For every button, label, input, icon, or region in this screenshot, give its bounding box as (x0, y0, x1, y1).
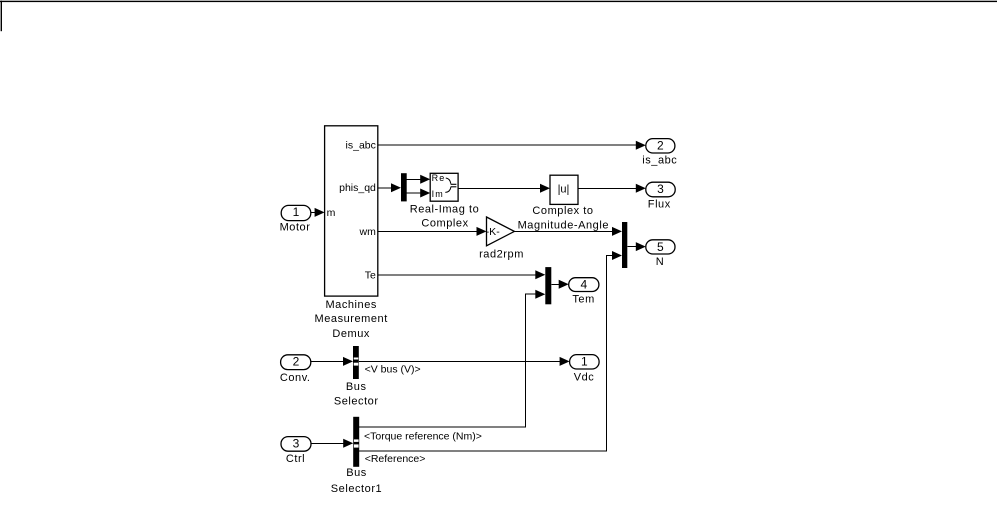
svg-text:rad2rpm: rad2rpm (479, 249, 524, 261)
svg-text:Im: Im (432, 189, 444, 199)
wire to Re (407, 175, 431, 184)
svg-text:Tem: Tem (572, 294, 594, 306)
outport 3 Flux (646, 182, 675, 210)
svg-text:<Torque reference (Nm)>: <Torque reference (Nm)> (364, 430, 482, 442)
svg-text:<Reference>: <Reference> (365, 453, 426, 465)
wire mux Tem output (551, 280, 568, 289)
outport 1 Vdc (570, 354, 600, 383)
svg-text:is_abc: is_abc (642, 154, 677, 166)
svg-text:Complex: Complex (421, 217, 468, 229)
svg-text:Magnitude-Angle: Magnitude-Angle (518, 219, 609, 231)
block U1 Real-Imag to Complex (410, 173, 480, 230)
bus selector Bus Selector1 (331, 417, 382, 495)
svg-text:phis_qd: phis_qd (339, 182, 376, 194)
wire Reference to mux N (359, 251, 622, 451)
svg-text:1: 1 (581, 354, 588, 368)
signal label V bus (V) (365, 363, 421, 375)
svg-text:5: 5 (657, 240, 664, 254)
wire Torque reference to mux Tem (359, 290, 545, 427)
svg-text:wm: wm (359, 226, 377, 238)
outport 4 Tem (569, 278, 599, 306)
svg-text:Ctrl: Ctrl (286, 453, 305, 465)
svg-text:3: 3 (293, 436, 300, 450)
wire Conv to Bus Selector (311, 357, 353, 366)
mux N (622, 222, 627, 268)
svg-text:is_abc: is_abc (346, 139, 376, 151)
svg-text:Te: Te (365, 269, 376, 281)
svg-text:3: 3 (657, 182, 664, 196)
svg-text:4: 4 (580, 278, 587, 292)
svg-text:Selector1: Selector1 (331, 483, 382, 495)
wire wm (378, 227, 487, 236)
svg-text:-K-: -K- (486, 226, 501, 238)
svg-text:Bus: Bus (346, 381, 367, 393)
wire to Im (407, 189, 431, 198)
svg-text:Demux: Demux (332, 328, 370, 340)
bus selector Bus Selector (334, 346, 379, 407)
block U2 Complex to Magnitude-Angle (518, 175, 609, 231)
wire Real-Imag to Complex output (458, 184, 550, 193)
svg-text:2: 2 (293, 354, 300, 368)
inport 2 Conv. (280, 354, 311, 384)
subsystem Machines Measurement Demux (315, 126, 388, 340)
svg-text:Vdc: Vdc (574, 371, 595, 383)
svg-text:2: 2 (657, 139, 664, 153)
svg-text:Selector: Selector (334, 395, 379, 407)
gain rad2rpm (479, 217, 524, 261)
svg-text:Bus: Bus (346, 467, 367, 479)
demux phis_qd split (401, 173, 407, 201)
svg-text:1: 1 (293, 205, 300, 219)
wire V bus to Vdc (359, 357, 570, 366)
svg-text:Re: Re (432, 173, 446, 183)
wire Ctrl to Bus Selector1 (311, 439, 353, 448)
wire Motor m (311, 208, 325, 217)
svg-text:Complex to: Complex to (532, 205, 593, 217)
svg-text:Machines: Machines (325, 299, 376, 311)
inport 3 Ctrl (281, 436, 311, 465)
outport 5 N (646, 240, 675, 268)
svg-text:Conv.: Conv. (280, 372, 311, 384)
wire Te (378, 270, 546, 279)
inport 1 Motor (280, 205, 311, 234)
svg-text:m: m (327, 207, 336, 219)
wire mux N output (627, 242, 646, 251)
svg-text:<V bus (V)>: <V bus (V)> (365, 363, 421, 375)
svg-text:Motor: Motor (280, 222, 311, 234)
wire Complex to Magnitude-Angle output (578, 184, 646, 193)
svg-text:N: N (656, 256, 665, 268)
wire phis_qd (378, 183, 401, 192)
outport 2 is_abc (642, 139, 677, 167)
mux Tem (545, 267, 551, 304)
svg-text:Real-Imag to: Real-Imag to (410, 204, 480, 216)
wire is_abc (378, 141, 646, 150)
wire rad2rpm to mux N (514, 227, 622, 236)
svg-text:Flux: Flux (648, 198, 671, 210)
svg-text:Measurement: Measurement (315, 313, 388, 325)
signal label Reference (365, 453, 426, 465)
svg-text:|u|: |u| (558, 184, 570, 196)
signal label Torque reference (Nm) (364, 430, 482, 442)
